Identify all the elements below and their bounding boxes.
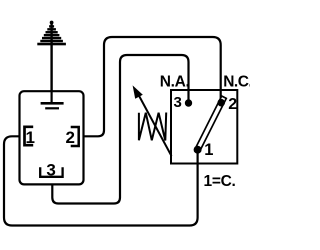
svg-text:2: 2 xyxy=(65,128,74,147)
antenna bar 6 xyxy=(40,40,63,42)
antenna bar 1 xyxy=(49,25,54,27)
wire pin1 of connector to common terminal 1 xyxy=(4,136,198,225)
terminal bracket 2 xyxy=(71,127,79,146)
svg-text:1: 1 xyxy=(204,141,213,159)
svg-text:1=C.: 1=C. xyxy=(204,173,236,190)
adjustment arrow shaft xyxy=(138,94,172,157)
antenna tip dot xyxy=(50,21,54,25)
antenna bar 5 xyxy=(42,37,61,39)
svg-text:3: 3 xyxy=(173,94,181,111)
svg-text:3: 3 xyxy=(46,161,55,180)
terminal bracket 1 xyxy=(25,127,34,145)
svg-text:N.C.: N.C. xyxy=(223,73,250,90)
terminal bracket 3 xyxy=(40,167,62,177)
antenna bar 7 (base) xyxy=(37,43,66,46)
ground bar 2 xyxy=(45,107,59,109)
adjustment spring xyxy=(139,113,166,141)
svg-text:1: 1 xyxy=(25,128,34,147)
terminal dot 3 (N.A.) xyxy=(185,99,192,106)
ground stub inside connector xyxy=(50,91,52,102)
svg-text:N.A.: N.A. xyxy=(160,73,190,90)
wire pin3 of connector to N.A. terminal 3 xyxy=(52,55,188,204)
antenna bar 2 xyxy=(47,28,56,30)
microswitch box xyxy=(171,90,237,164)
antenna bar 4 xyxy=(44,34,60,36)
terminal dot 2 (N.C.) xyxy=(217,99,225,107)
terminal dot 1 (common) xyxy=(194,146,202,154)
adjustment arrowhead xyxy=(133,85,143,98)
svg-text:2: 2 xyxy=(228,96,237,113)
circuit schematic: pressure switch wiring diagram xyxy=(0,0,250,250)
antenna / capillary sensing element mast xyxy=(50,23,52,93)
wire pin2 of connector to N.C. terminal 2 xyxy=(84,37,221,136)
connector box (left) xyxy=(20,91,84,184)
antenna bar 3 xyxy=(46,31,58,33)
ground bar 1 xyxy=(41,102,64,105)
switch lever (common to N.C.) xyxy=(195,96,226,151)
